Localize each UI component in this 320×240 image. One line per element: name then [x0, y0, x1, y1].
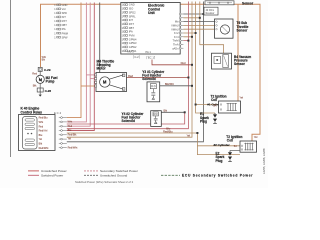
ECU pin R4 VMAU	[171, 24, 183, 28]
svg-text:5A: 5A	[213, 105, 216, 108]
svg-text:Sensor: Sensor	[242, 1, 254, 5]
svg-text:Sensor: Sensor	[237, 29, 249, 33]
wire: ECU pin R7 to bus x192 down to K40 row 7	[67, 2, 192, 138]
K40 pin 2 Wht	[39, 121, 67, 124]
K40 pin 3 Red	[39, 125, 67, 128]
wire C-29 to M2	[39, 71, 41, 75]
ECU pin R10 uADn	[172, 46, 183, 50]
legend: Unswitched Power	[28, 169, 67, 173]
junction node at 184.7,112.3	[184, 111, 186, 113]
svg-text:Solenoid: Solenoid	[142, 77, 156, 81]
ECU pin R1	[179, 13, 183, 15]
wire: ECU pin R5 to T6 pin 3	[183, 28, 215, 30]
svg-text:Blu: Blu	[39, 134, 43, 137]
wire: ECU pin R2 to bus x199.8 down to B4 sensor	[183, 2, 223, 54]
junction node at 195.6,104.5	[195, 104, 197, 106]
E1 spark plug symbol	[213, 113, 217, 123]
legend: Switched Power	[28, 174, 63, 178]
svg-text:Red/Yel: Red/Yel	[39, 130, 48, 133]
svg-text:Wht: Wht	[68, 121, 73, 124]
wire: M4 pin spur 2	[90, 78, 96, 80]
svg-text:ECU Secondary Switched Power: ECU Secondary Switched Power	[182, 174, 253, 178]
ECU pin L3 SPD2	[122, 10, 137, 14]
wire: Y4 solenoid to bus x184.7	[161, 111, 184, 113]
T2 Ignition Coil 1 labels	[207, 95, 226, 107]
Y3 solenoid box	[147, 82, 160, 102]
wire: pink bus 2 into K40 row 3	[67, 3, 90, 127]
ECU pin L10 GPW4	[122, 37, 137, 41]
wire: orange vertical bus into K40 row 1	[67, 3, 81, 118]
svg-text:Red: Red	[68, 125, 73, 128]
ECU pin L6 RXT	[122, 22, 135, 26]
svg-text:Unswitched Ground: Unswitched Ground	[100, 174, 127, 178]
connector EC2 pin 3 SPD	[54, 11, 67, 15]
svg-text:Unit: Unit	[148, 11, 155, 15]
wire: red bus 3 into K40 row 4	[67, 3, 95, 131]
ECU pin R6 KI 2	[174, 31, 183, 35]
K40 pin 6 Yel	[39, 138, 67, 141]
svg-text:Motor: Motor	[97, 67, 107, 71]
svg-text:Red: Red	[39, 125, 44, 128]
svg-text:Red/Wht: Red/Wht	[39, 147, 49, 150]
junction node at 188.4,40.6	[187, 40, 189, 42]
T2 Ignition Coil 2 labels	[214, 135, 243, 147]
wire: ECU pin R4 to T6 pin 2	[183, 24, 215, 26]
junction node at 197.4,133	[196, 132, 198, 134]
M4 left pins	[95, 74, 97, 76]
ECU box Electronic Control Unit	[121, 3, 180, 55]
connector C-26	[37, 88, 51, 93]
ECU pin R3 Mtr	[175, 20, 184, 24]
svg-text:40 Ohm: 40 Ohm	[206, 9, 215, 12]
ECU pin L8 IPA	[122, 30, 133, 34]
connector EC2 pin 7 IPA	[54, 27, 66, 31]
E2 spark plug symbol	[228, 151, 232, 162]
junction node at 203.4,14	[202, 13, 204, 15]
Y3 #1 Cylinder Fuel Injector Solenoid labels	[142, 70, 165, 81]
svg-text:Wht: Wht	[39, 121, 44, 124]
ground below C-26	[39, 92, 42, 97]
wire: ECU pin R3 to T6 pin 1	[183, 21, 215, 23]
ECU pin L5 INT	[122, 18, 134, 22]
ECU pin L4 SPRL	[122, 14, 137, 18]
svg-text:M: M	[103, 80, 107, 85]
wire: EC1 red feed to bus x192	[152, 60, 192, 65]
ECU pin L1 GND	[122, 3, 135, 7]
svg-text:Resistor: Resistor	[206, 12, 215, 15]
Y4 solenoid box	[151, 111, 162, 127]
svg-text:Solenoid: Solenoid	[122, 119, 136, 123]
svg-text:Electronic: Electronic	[148, 4, 165, 8]
connector EC2 pin 6 DBT	[54, 23, 67, 27]
connector EC2 pin 9 SPW	[54, 35, 68, 39]
K40 pin 8 Red/Wht	[39, 147, 67, 150]
ECU pin L2 ISO	[122, 7, 134, 11]
junction node at 199.8,17.8	[199, 17, 201, 19]
T2 coil 2 box	[234, 141, 257, 152]
wire: pink bus 1 into K40 row 2	[67, 3, 87, 122]
K40 pin 5 Blu	[39, 134, 67, 137]
wire: orange drop to T2 coil 1	[237, 4, 239, 101]
wire: K40 row 9 to bus x197.4 down to T2 coil 2	[67, 133, 240, 155]
resistor box 40 Ohm	[204, 7, 218, 15]
connector EC2 pin 2 Vcc	[54, 7, 66, 11]
svg-text:Switched Power: Switched Power	[41, 174, 63, 178]
ECU pin L11 GPW3	[122, 41, 137, 45]
Y4 #2 Cylinder Fuel Injector Solenoid labels	[122, 112, 145, 123]
legend: Secondary Switched Power	[84, 169, 138, 173]
junction node at 195.6,33	[195, 32, 197, 34]
T5 throttle sensor connector	[205, 1, 254, 6]
svg-text:Unswitched Power: Unswitched Power	[41, 169, 67, 173]
connector EC2 pin 4 INT	[54, 15, 66, 19]
T6 Sub Throttle Sensor box	[215, 19, 249, 38]
wire M2 to C-26	[39, 83, 41, 88]
wire: ECU pin R1 to bus x203.4 down to K40 row 8	[67, 2, 204, 142]
K40 pin 1 Red/Blu	[39, 117, 67, 120]
ECU pin L12 GPW2	[122, 45, 137, 49]
ECU pin L7 DBT	[122, 26, 135, 30]
svg-text:Pump: Pump	[46, 80, 55, 84]
junction node at 192,36.8	[191, 36, 193, 38]
ECU pin R5 VMAU	[171, 27, 183, 31]
svg-text:Plug: Plug	[216, 159, 223, 163]
svg-text:Secondary Switched Power: Secondary Switched Power	[100, 169, 138, 173]
K40 Engine Control Relay labels	[21, 107, 43, 115]
T2 coil 1 box	[213, 101, 240, 113]
legend: ECU Secondary Switched Power	[161, 174, 253, 178]
ECU pin R8 ThrM	[173, 39, 184, 43]
wire: ECU pin R6 to bus x195.6 down to T2 coil 1	[183, 2, 218, 114]
connector C-29	[38, 67, 51, 72]
svg-text:Red/Blk: Red/Blk	[68, 133, 78, 136]
motor M2 Fuel Pump	[36, 75, 57, 83]
svg-text:C-26: C-26	[45, 89, 52, 93]
svg-text:Yel: Yel	[39, 138, 43, 141]
wire: Y3 solenoid to bus x192	[160, 85, 192, 87]
wire coil2 bottom to plug2	[230, 150, 240, 152]
wire: M4 motor output Red to bus x188.4	[127, 77, 189, 79]
wire: K40 row 6 to x184.7 up to Y4 junction	[67, 112, 185, 124]
wire: M4 pin spur 3	[94, 81, 96, 83]
connector EC2 pin 8 PWM	[54, 31, 68, 35]
wire: switched power top bus (orange)	[41, 4, 261, 141]
wire: M4 pin spur 1	[86, 74, 96, 76]
legend: Unswitched Ground	[84, 174, 127, 178]
svg-text:Control Relay: Control Relay	[21, 110, 43, 114]
E2 Spark Plug labels	[216, 152, 225, 163]
svg-text:Blu: Blu	[68, 129, 72, 132]
svg-text:Red/Wht: Red/Wht	[68, 146, 78, 149]
junction node at 192,85.8	[191, 85, 193, 87]
K40 pin 4 Red/Yel	[39, 130, 67, 133]
svg-text:Coil: Coil	[227, 139, 233, 143]
M4 Throttle Stepping Motor labels	[97, 59, 115, 70]
connector EC2 pin 1 GND	[54, 3, 67, 7]
wire: M4 pin spur 4	[81, 85, 96, 87]
ECU pin L9 PVM	[122, 34, 135, 38]
svg-text:Switched Power (Wire) Schemati: Switched Power (Wire) Schematic Sheet 2 …	[75, 180, 134, 184]
ECU pin R7 KI 4	[174, 35, 183, 39]
E1 Spark Plug labels	[200, 112, 209, 123]
svg-text:Red/Blu: Red/Blu	[39, 117, 49, 120]
connector EC2 pin 5 RXT	[54, 19, 67, 23]
svg-text:Control: Control	[148, 7, 160, 11]
K40 pin 7 Blk	[39, 143, 67, 146]
junction node at 192,64.8	[191, 64, 193, 66]
svg-text:Sensor: Sensor	[234, 62, 246, 66]
svg-text:#2 Cylinder: #2 Cylinder	[214, 143, 231, 147]
ECU pin L13 GPW1	[122, 49, 137, 53]
ECU pin R9 ThrA	[173, 43, 183, 47]
svg-text:Coil: Coil	[211, 98, 217, 102]
junction node at 188.4,77.5	[187, 77, 189, 79]
ECU pin R2	[179, 17, 183, 19]
M4 motor box	[96, 73, 127, 92]
svg-text:Yel: Yel	[68, 138, 72, 141]
svg-text:C-29: C-29	[44, 68, 51, 72]
wire: dark bus down to M4 top	[99, 3, 101, 73]
wire: ECU pin R8 to bus x188.4 down to K40 row 5	[67, 2, 189, 129]
svg-text:5A: 5A	[234, 145, 237, 148]
K40 relay box	[19, 115, 56, 151]
svg-text:Plug: Plug	[200, 119, 207, 123]
B4 Vacuum Pressure Sensor box	[212, 53, 252, 69]
